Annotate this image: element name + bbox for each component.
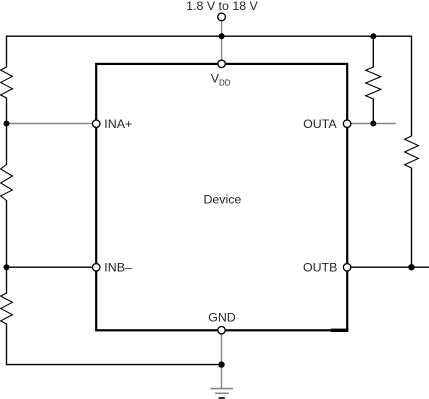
pin INB- open circle <box>92 264 100 272</box>
wire: bottom horizontal rail to ground junction <box>6 364 222 366</box>
svg-text:INB–: INB– <box>104 261 132 275</box>
svg-text:INA+: INA+ <box>104 117 132 131</box>
wire: OUTB horizontal wire to right image edge <box>351 266 429 268</box>
node: junction dot left rail / INA+ wire <box>4 121 10 127</box>
terminal: supply input open circle <box>218 13 226 21</box>
wire: INA+ horizontal wire (gray) <box>7 123 93 125</box>
wire: top horizontal rail VDD net <box>6 35 412 37</box>
ground symbol <box>210 389 233 398</box>
svg-text:VDD: VDD <box>211 72 231 88</box>
wire: supply stem from supply terminal to VDD pin (gray) <box>221 21 223 60</box>
resistor R3 (left bottom divider) <box>1 293 13 324</box>
svg-text:Device: Device <box>203 192 241 206</box>
resistor R5 (right branch, x=411.5) <box>405 136 419 168</box>
wire: right vertical rail, R5 to OUTB row <box>411 168 413 268</box>
node: junction dot right rail / OUTB wire <box>408 264 414 270</box>
wire: right vertical rail, top rail to R5 <box>411 36 413 137</box>
resistor R2 (left middle divider) <box>1 165 13 201</box>
node: junction dot feedback branch / top rail <box>370 33 376 39</box>
wire: feedback branch, top rail to R4 <box>372 36 374 67</box>
svg-text:GND: GND <box>208 311 236 325</box>
node: junction dot ground stem / bottom rail <box>218 361 224 367</box>
thick segment at bottom-right corner of box <box>331 329 349 332</box>
pin VDD open circle <box>218 60 226 68</box>
node: junction dot feedback branch / OUTA wire <box>370 121 376 127</box>
pin OUTA open circle <box>343 120 351 128</box>
wire: left vertical rail, R2 to R3 <box>6 200 8 294</box>
wire: left vertical rail, top rail to R1 <box>6 36 8 68</box>
wire: INB- horizontal wire <box>7 266 93 268</box>
wire: left vertical rail, R3 to bottom rail <box>6 324 8 366</box>
wire: feedback branch, R4 to OUTA row <box>372 99 374 124</box>
wire: ground stem from GND pin to ground symbol (gray) <box>221 334 223 389</box>
node: junction dot supply / top rail <box>219 33 225 39</box>
svg-text:OUTB: OUTB <box>303 261 337 275</box>
resistor R4 (OUTA feedback, x=373.3) <box>366 67 381 99</box>
wire: left vertical rail, R1 to R2 <box>6 98 8 166</box>
pin GND open circle <box>218 326 226 334</box>
device box U1 <box>96 64 347 330</box>
pin OUTB open circle <box>343 264 351 272</box>
svg-text:1.8 V to 18 V: 1.8 V to 18 V <box>186 0 258 13</box>
wire: OUTA horizontal wire (gray) <box>351 123 396 125</box>
node: junction dot left rail / INB- wire <box>4 264 10 270</box>
svg-text:OUTA: OUTA <box>303 117 337 131</box>
pin INA+ open circle <box>92 120 100 128</box>
resistor R1 (left top divider) <box>1 67 13 98</box>
